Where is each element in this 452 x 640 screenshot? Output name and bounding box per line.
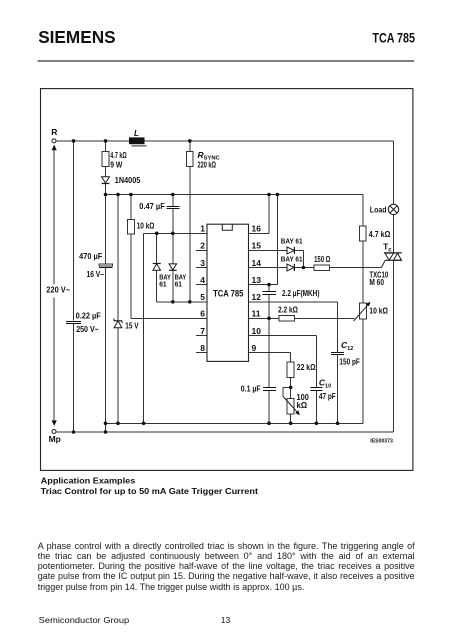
- svg-text:4.7 kΩ: 4.7 kΩ: [110, 150, 127, 160]
- svg-text:4: 4: [200, 275, 205, 285]
- svg-text:Application Examples: Application Examples: [41, 477, 136, 486]
- svg-text:250 V~: 250 V~: [76, 324, 99, 334]
- svg-text:2.2 µF(MKH): 2.2 µF(MKH): [282, 288, 320, 298]
- svg-text:22 kΩ: 22 kΩ: [297, 362, 316, 372]
- svg-text:Triac Control for up to 50 mA: Triac Control for up to 50 mA Gate Trigg…: [41, 487, 259, 496]
- svg-text:10 kΩ: 10 kΩ: [137, 221, 155, 231]
- svg-text:Load: Load: [370, 204, 387, 214]
- svg-text:kΩ: kΩ: [297, 400, 308, 410]
- svg-text:8: 8: [200, 343, 205, 353]
- svg-text:15: 15: [252, 241, 262, 251]
- svg-text:11: 11: [252, 309, 261, 319]
- svg-text:2: 2: [200, 241, 205, 251]
- svg-text:L: L: [134, 129, 139, 138]
- svg-text:BAY 61: BAY 61: [281, 254, 303, 263]
- svg-text:220 kΩ: 220 kΩ: [198, 159, 217, 169]
- svg-text:BAY 61: BAY 61: [281, 237, 303, 246]
- svg-text:SIEMENS: SIEMENS: [38, 27, 115, 47]
- svg-text:5: 5: [200, 292, 205, 302]
- svg-text:2.2 kΩ: 2.2 kΩ: [278, 304, 298, 314]
- svg-text:220 V~: 220 V~: [46, 285, 70, 295]
- svg-text:R: R: [51, 127, 57, 137]
- svg-text:Mp: Mp: [49, 434, 61, 444]
- svg-text:1: 1: [200, 224, 205, 234]
- svg-text:TCA 785: TCA 785: [372, 29, 415, 45]
- svg-text:0.47 µF: 0.47 µF: [139, 201, 165, 211]
- svg-text:Semiconductor Group: Semiconductor Group: [39, 615, 130, 625]
- svg-text:0.22 µF: 0.22 µF: [76, 310, 101, 320]
- svg-text:10 kΩ: 10 kΩ: [369, 305, 388, 315]
- svg-text:3: 3: [200, 258, 205, 268]
- svg-text:C12: C12: [341, 340, 353, 352]
- svg-text:IES00373: IES00373: [370, 439, 393, 445]
- svg-text:15 V: 15 V: [125, 321, 138, 331]
- svg-text:7: 7: [200, 326, 205, 336]
- svg-text:14: 14: [252, 258, 262, 268]
- svg-text:M 60: M 60: [369, 277, 384, 287]
- svg-text:6: 6: [200, 309, 205, 319]
- svg-text:1N4005: 1N4005: [115, 175, 141, 185]
- svg-text:12: 12: [252, 292, 262, 302]
- svg-text:9: 9: [252, 343, 257, 353]
- svg-text:61: 61: [159, 280, 166, 289]
- svg-text:4.7 kΩ: 4.7 kΩ: [369, 229, 391, 239]
- svg-text:150 Ω: 150 Ω: [314, 254, 330, 264]
- svg-text:16 V–: 16 V–: [87, 269, 105, 279]
- svg-text:150 pF: 150 pF: [339, 356, 360, 366]
- svg-text:13: 13: [221, 615, 231, 625]
- svg-text:61: 61: [175, 280, 182, 289]
- svg-text:47 pF: 47 pF: [319, 391, 336, 401]
- svg-text:TCA 785: TCA 785: [213, 289, 244, 300]
- svg-text:10: 10: [252, 326, 262, 336]
- svg-text:13: 13: [252, 275, 262, 285]
- svg-text:Tc: Tc: [383, 241, 392, 253]
- svg-text:0.1 µF: 0.1 µF: [241, 384, 261, 394]
- svg-text:16: 16: [252, 224, 262, 234]
- svg-text:470 µF: 470 µF: [79, 251, 102, 261]
- svg-text:9 W: 9 W: [110, 160, 123, 170]
